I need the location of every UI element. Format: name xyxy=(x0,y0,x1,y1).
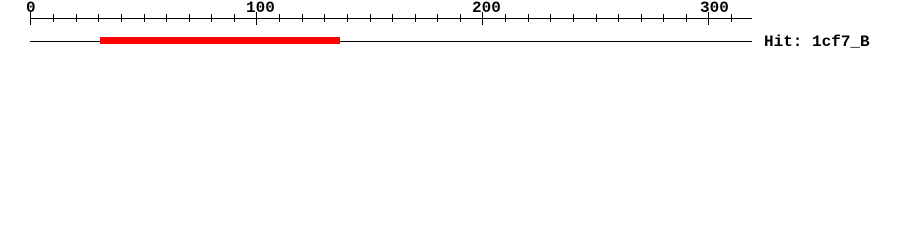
hit red bar (aligned region) xyxy=(100,37,340,44)
minor tick 240 xyxy=(573,14,574,22)
minor tick 60 xyxy=(166,14,167,22)
minor tick 190 xyxy=(460,14,461,22)
minor tick 20 xyxy=(76,14,77,22)
minor tick 10 xyxy=(53,14,54,22)
minor tick 180 xyxy=(437,14,438,22)
minor tick 30 xyxy=(98,14,99,22)
minor tick 50 xyxy=(144,14,145,22)
minor tick 260 xyxy=(618,14,619,22)
ruler label 0 xyxy=(26,0,36,16)
minor tick 280 xyxy=(663,14,664,22)
major tick 300 xyxy=(708,12,709,25)
minor tick 90 xyxy=(234,14,235,22)
minor tick 120 xyxy=(302,14,303,22)
minor tick 40 xyxy=(121,14,122,22)
minor tick 270 xyxy=(641,14,642,22)
ruler label 100 xyxy=(246,0,275,16)
minor tick 310 xyxy=(731,14,732,22)
hit line xyxy=(30,41,752,42)
minor tick 70 xyxy=(189,14,190,22)
major tick 200 xyxy=(482,12,483,25)
ruler label 200 xyxy=(472,0,501,16)
ruler axis line xyxy=(30,18,752,19)
minor tick 150 xyxy=(370,14,371,22)
minor tick 170 xyxy=(415,14,416,22)
minor tick 250 xyxy=(596,14,597,22)
minor tick 230 xyxy=(550,14,551,22)
minor tick 220 xyxy=(528,14,529,22)
major tick 0 xyxy=(30,12,31,25)
major tick 100 xyxy=(256,12,257,25)
ruler label 300 xyxy=(700,0,729,16)
minor tick 140 xyxy=(347,14,348,22)
hit label text xyxy=(764,34,870,50)
minor tick 130 xyxy=(324,14,325,22)
minor tick 80 xyxy=(211,14,212,22)
minor tick 210 xyxy=(505,14,506,22)
minor tick 110 xyxy=(279,14,280,22)
minor tick 160 xyxy=(392,14,393,22)
minor tick 290 xyxy=(686,14,687,22)
